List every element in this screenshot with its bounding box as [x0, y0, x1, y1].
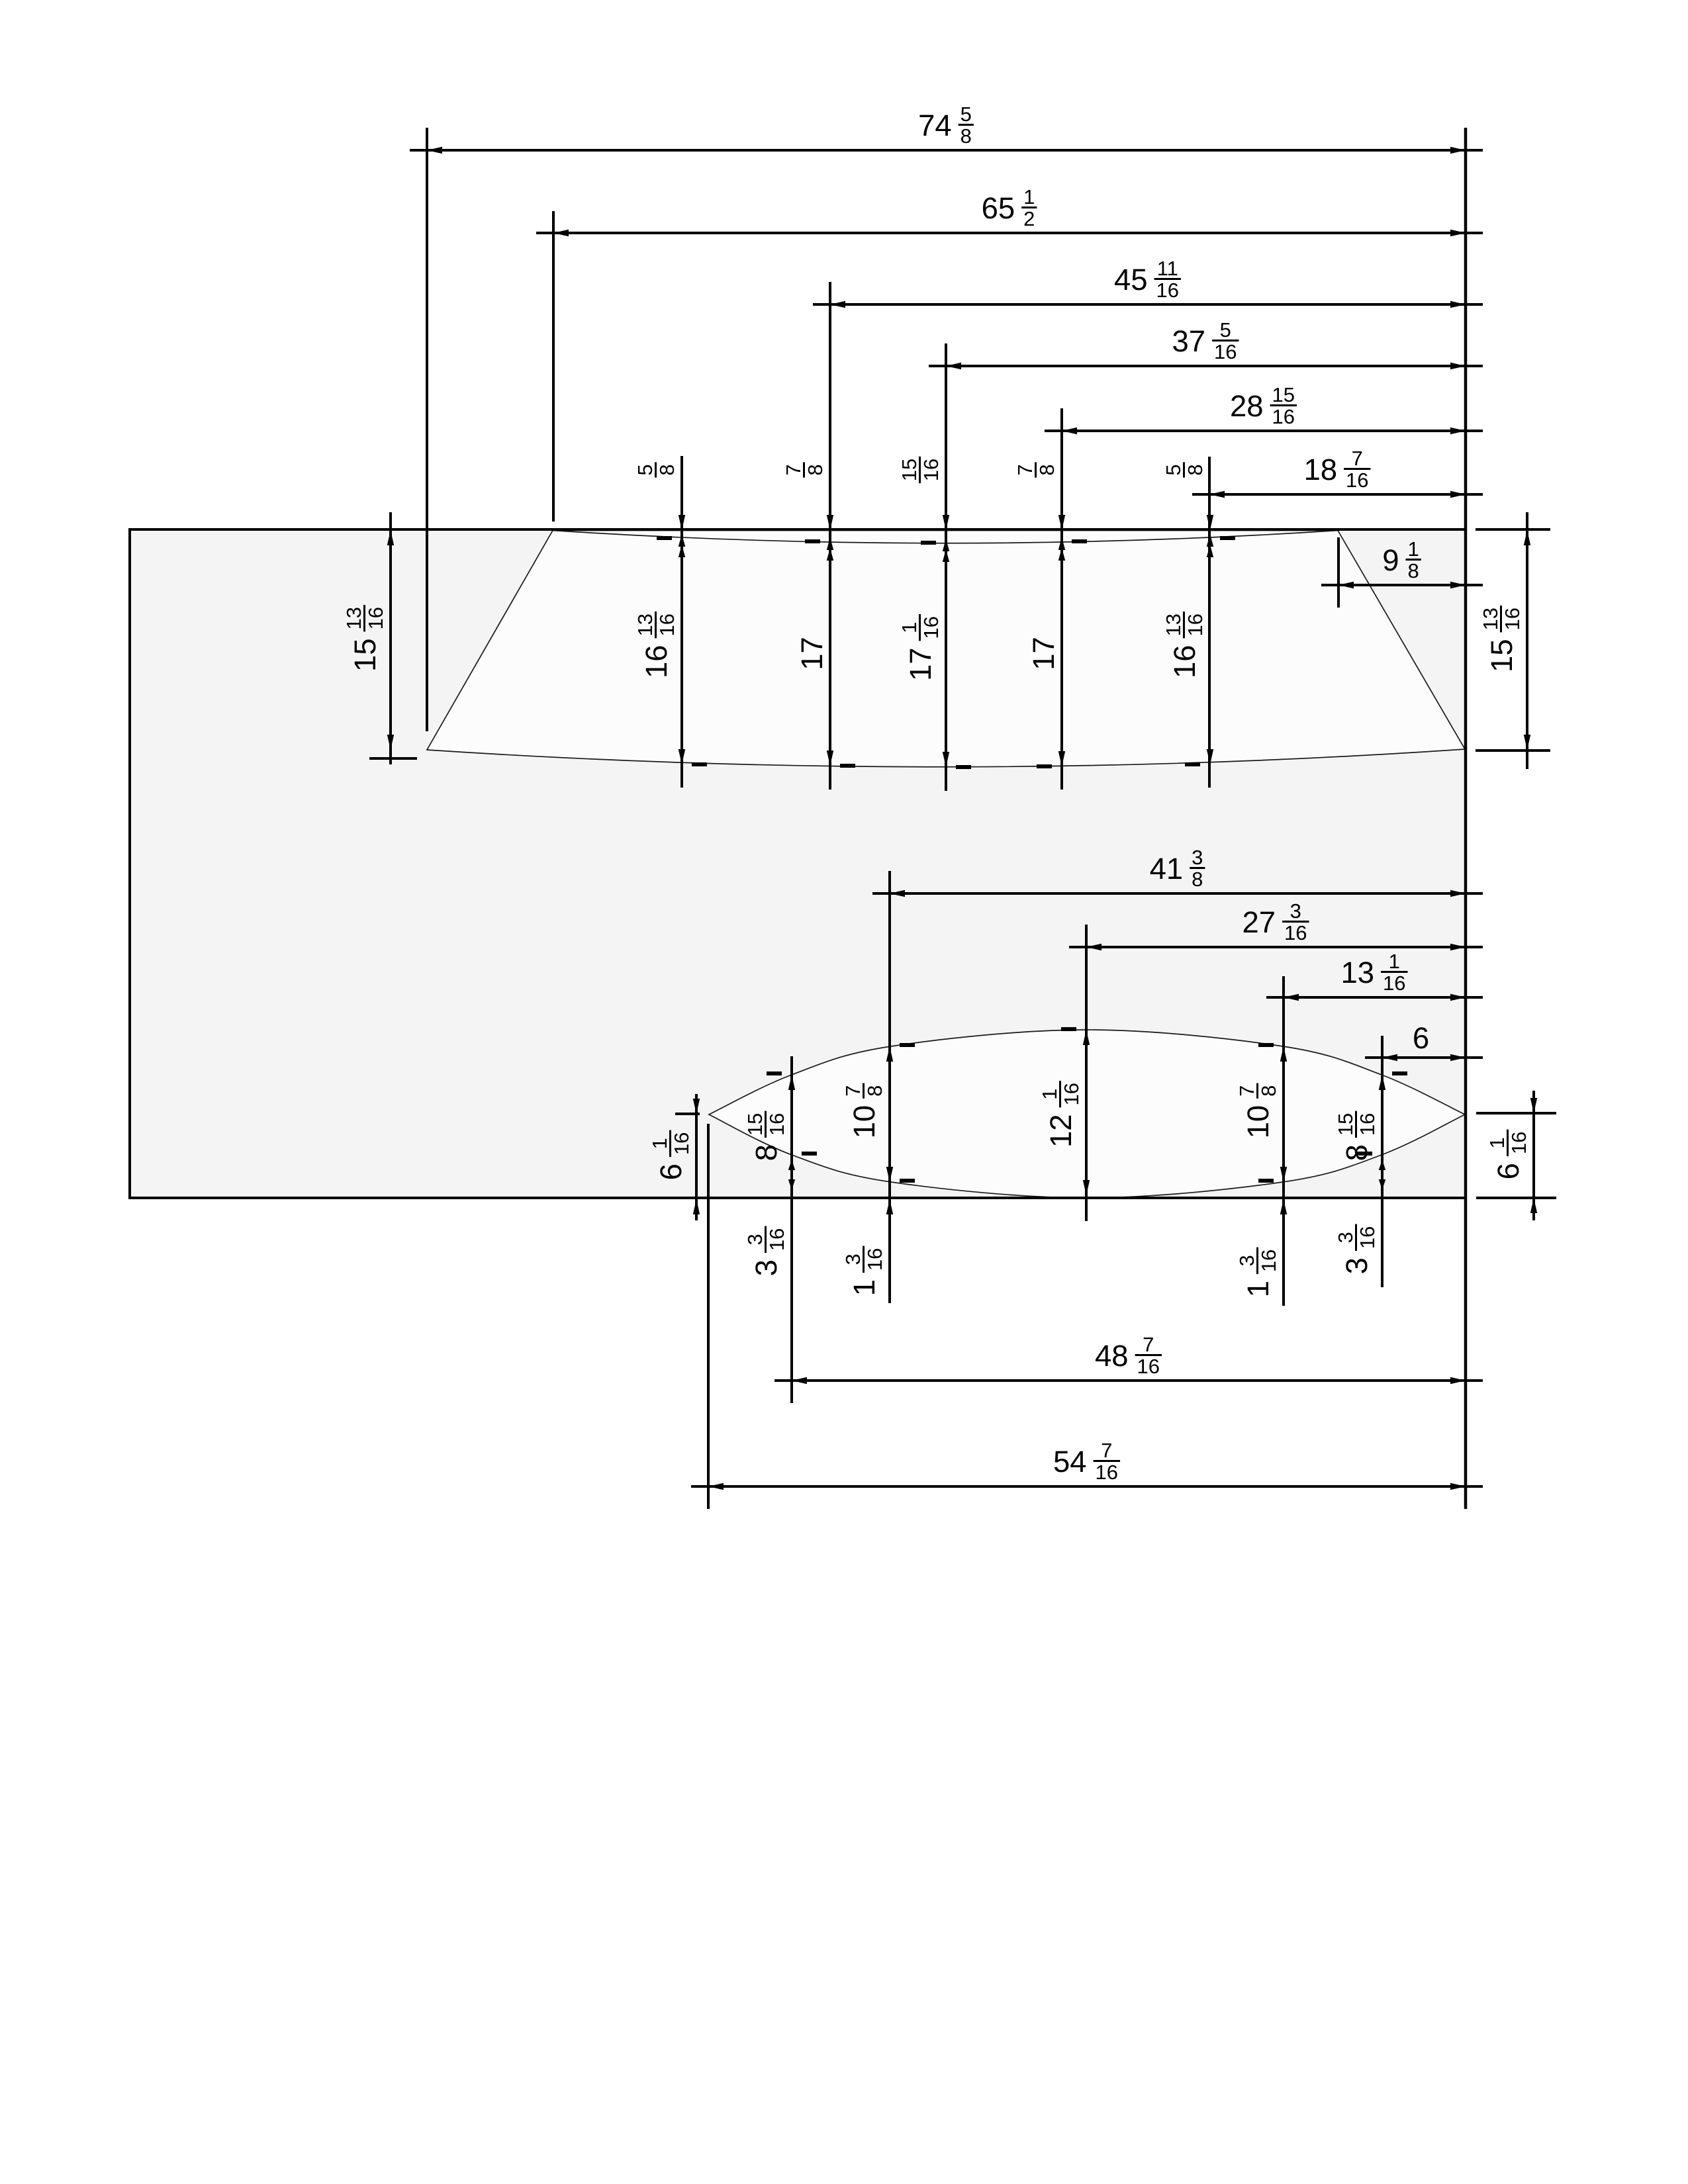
- svg-text:74: 74: [918, 109, 952, 142]
- svg-text:16: 16: [1356, 1226, 1379, 1249]
- dimension 13 1/16: [1266, 996, 1483, 999]
- svg-text:16: 16: [765, 1113, 788, 1136]
- svg-text:6: 6: [1413, 1021, 1429, 1055]
- dimension 3 3/16 (left) at x=1196: [788, 1160, 795, 1170]
- svg-text:17: 17: [795, 637, 829, 670]
- extension line x=2022 (9 1/8 left): [1337, 537, 1340, 608]
- svg-text:11: 11: [1157, 257, 1178, 280]
- svg-text:9: 9: [1382, 543, 1399, 577]
- main right extension line x=2214: [1464, 128, 1468, 1509]
- svg-text:10: 10: [1241, 1105, 1275, 1139]
- svg-text:16: 16: [639, 645, 673, 678]
- svg-text:3: 3: [1290, 899, 1301, 923]
- dimension 1 3/16 (left) at x=1344: [886, 1199, 893, 1214]
- dimension 18 7/16: [1192, 493, 1483, 496]
- dimension 45 11/16: [813, 303, 1483, 306]
- svg-text:16: 16: [1272, 405, 1295, 428]
- svg-text:15: 15: [348, 638, 382, 672]
- svg-text:16: 16: [1346, 469, 1368, 492]
- svg-text:8: 8: [1184, 464, 1207, 475]
- lens pattern outline: [709, 1030, 1465, 1198]
- svg-text:16: 16: [1156, 279, 1179, 302]
- extension line x=1604: [1060, 408, 1063, 790]
- svg-text:15: 15: [1272, 383, 1295, 406]
- svg-text:16: 16: [1060, 1083, 1083, 1105]
- svg-text:1: 1: [847, 1279, 881, 1296]
- svg-text:1: 1: [1389, 950, 1400, 973]
- dimension 8 15/16 (left) at x=1196: [788, 1075, 795, 1090]
- svg-text:8: 8: [1407, 559, 1419, 582]
- dimension 1 3/16 (right) at x=1939: [1280, 1199, 1287, 1214]
- svg-text:13: 13: [1341, 956, 1375, 989]
- dimension 65 1/2: [536, 232, 1483, 234]
- svg-text:8: 8: [1257, 1085, 1280, 1097]
- svg-text:16: 16: [765, 1228, 788, 1251]
- extension line x=1254: [829, 282, 831, 790]
- extension line x=1939: [1282, 976, 1285, 1306]
- svg-text:7: 7: [1352, 447, 1363, 470]
- svg-text:15: 15: [743, 1113, 767, 1136]
- svg-text:3: 3: [1340, 1257, 1374, 1274]
- svg-text:5: 5: [961, 103, 972, 126]
- svg-text:48: 48: [1095, 1339, 1129, 1373]
- svg-text:7: 7: [841, 1085, 865, 1097]
- dimension 6 1/16 (left): [695, 1094, 698, 1220]
- svg-text:1: 1: [648, 1138, 671, 1149]
- extension line x=1030: [680, 456, 683, 788]
- dimension 8 15/16 (right) at x=2088: [1379, 1075, 1385, 1090]
- svg-text:8: 8: [655, 464, 679, 475]
- panel border: [130, 529, 1466, 1198]
- dimension 10 7/8 (left) at x=1344: [886, 1046, 893, 1062]
- svg-text:13: 13: [342, 607, 365, 629]
- svg-text:3: 3: [1192, 846, 1203, 869]
- svg-text:5: 5: [633, 464, 657, 475]
- svg-text:7: 7: [1101, 1439, 1112, 1462]
- dimension 17 band height at x=1254: [827, 751, 833, 766]
- svg-text:7: 7: [782, 464, 805, 475]
- dimension 10 7/8 (right) at x=1939: [1280, 1046, 1287, 1062]
- svg-text:10: 10: [847, 1105, 881, 1139]
- dimension 7/8 drop at x=1254: [827, 515, 833, 530]
- dimension 41 3/8: [872, 892, 1483, 895]
- svg-text:16: 16: [1284, 921, 1307, 944]
- svg-text:16: 16: [919, 616, 943, 639]
- dimension 48 7/16: [774, 1379, 1483, 1382]
- dimension 74 5/8: [410, 149, 1483, 152]
- dimension 6 1/16 (right): [1532, 1091, 1535, 1220]
- svg-text:3: 3: [841, 1253, 865, 1265]
- dimension 15/16 drop at x=1429: [943, 515, 949, 530]
- svg-text:16: 16: [1096, 1461, 1118, 1484]
- svg-text:37: 37: [1172, 324, 1206, 358]
- extension line x=645 (74 5/8 left / band bottom-left vertex): [426, 128, 428, 731]
- svg-text:16: 16: [1383, 972, 1405, 995]
- svg-text:5: 5: [1162, 464, 1185, 475]
- svg-text:3: 3: [1235, 1255, 1258, 1266]
- dimension 7/8 drop at x=1604: [1058, 515, 1065, 530]
- svg-text:13: 13: [633, 614, 657, 636]
- svg-text:3: 3: [749, 1259, 783, 1276]
- svg-text:16: 16: [863, 1248, 886, 1271]
- svg-text:16: 16: [1214, 340, 1237, 363]
- svg-text:1: 1: [1485, 1137, 1509, 1148]
- svg-text:15: 15: [898, 459, 921, 481]
- svg-text:18: 18: [1304, 453, 1338, 486]
- svg-text:2: 2: [1023, 207, 1035, 230]
- svg-text:45: 45: [1114, 263, 1148, 296]
- svg-text:15: 15: [1485, 639, 1519, 672]
- svg-text:8: 8: [1192, 868, 1203, 891]
- svg-text:16: 16: [1501, 608, 1524, 630]
- dimension 27 3/16: [1069, 946, 1483, 948]
- svg-text:13: 13: [1479, 608, 1502, 630]
- dimension 9 1/8: [1321, 584, 1483, 586]
- svg-text:16: 16: [1356, 1113, 1379, 1136]
- dimension 15 13/16 (left): [389, 512, 392, 764]
- dimension 28 15/16: [1045, 430, 1483, 432]
- svg-text:7: 7: [1235, 1085, 1258, 1097]
- svg-text:7: 7: [1143, 1333, 1154, 1356]
- svg-text:6: 6: [654, 1163, 688, 1180]
- cone band pattern outline: [427, 531, 1465, 767]
- svg-text:16: 16: [1257, 1250, 1280, 1272]
- extension line x=2088: [1381, 1036, 1383, 1287]
- band top dip curve: [553, 531, 1338, 543]
- svg-text:3: 3: [1334, 1232, 1357, 1243]
- dimension 6: [1365, 1056, 1483, 1059]
- svg-text:16: 16: [1168, 645, 1201, 678]
- svg-text:1: 1: [1241, 1281, 1275, 1297]
- svg-text:16: 16: [655, 614, 679, 636]
- extension line x=836 (65 1/2 left / band top-left vertex): [552, 211, 555, 522]
- svg-text:13: 13: [1162, 614, 1185, 636]
- dimension 37 5/16: [929, 365, 1483, 367]
- panel sheet: [130, 529, 1466, 1198]
- extension line x=1429: [945, 343, 947, 791]
- svg-text:16: 16: [1137, 1355, 1160, 1378]
- dimension 12 1/16 at x=1641: [1083, 1030, 1090, 1045]
- svg-text:8: 8: [804, 464, 827, 475]
- svg-text:1: 1: [898, 622, 921, 633]
- svg-text:7: 7: [1013, 464, 1037, 475]
- svg-text:16: 16: [919, 459, 943, 481]
- svg-text:16: 16: [670, 1132, 693, 1155]
- svg-text:27: 27: [1243, 905, 1276, 939]
- svg-text:17: 17: [1027, 637, 1060, 670]
- svg-text:16: 16: [1184, 614, 1207, 636]
- svg-text:8: 8: [749, 1144, 783, 1161]
- dimension 15 13/16 (right): [1476, 528, 1550, 531]
- svg-text:65: 65: [982, 191, 1015, 225]
- extension line x=1827: [1208, 457, 1211, 788]
- svg-text:1: 1: [1023, 185, 1035, 208]
- dimension 16 13/16 band height at x=1030: [679, 749, 685, 764]
- svg-text:1: 1: [1038, 1089, 1061, 1100]
- svg-text:8: 8: [961, 124, 972, 148]
- svg-text:12: 12: [1044, 1114, 1078, 1148]
- dimension 5/8 drop at x=1828: [1207, 515, 1213, 530]
- svg-text:8: 8: [863, 1085, 886, 1097]
- dimension 17 1/16 band height at x=1429: [943, 752, 949, 767]
- dimension 17 band height at x=1604: [1058, 751, 1065, 766]
- extension line x=1641: [1085, 925, 1088, 1221]
- dimension 3 3/16 (right) at x=2088: [1379, 1160, 1385, 1170]
- dimension 16 13/16 band height at x=1828: [1207, 749, 1213, 764]
- extension line x=1344: [888, 871, 891, 1303]
- svg-text:15: 15: [1334, 1113, 1357, 1136]
- extension line x=1196: [790, 1056, 793, 1403]
- svg-text:1: 1: [1407, 537, 1419, 561]
- svg-text:16: 16: [1507, 1132, 1530, 1154]
- dimension 5/8 drop at x=1030: [679, 515, 685, 530]
- svg-text:16: 16: [364, 607, 387, 629]
- svg-text:8: 8: [1035, 464, 1058, 475]
- svg-text:5: 5: [1220, 318, 1231, 341]
- svg-text:28: 28: [1230, 389, 1264, 423]
- svg-text:3: 3: [743, 1234, 767, 1245]
- svg-text:54: 54: [1053, 1445, 1087, 1479]
- extension line x=1070 (54 7/16 left / lens left tip): [707, 1124, 710, 1509]
- dimension 54 7/16: [691, 1485, 1483, 1488]
- svg-text:17: 17: [904, 647, 937, 681]
- svg-text:41: 41: [1150, 852, 1184, 886]
- svg-text:6: 6: [1491, 1163, 1525, 1179]
